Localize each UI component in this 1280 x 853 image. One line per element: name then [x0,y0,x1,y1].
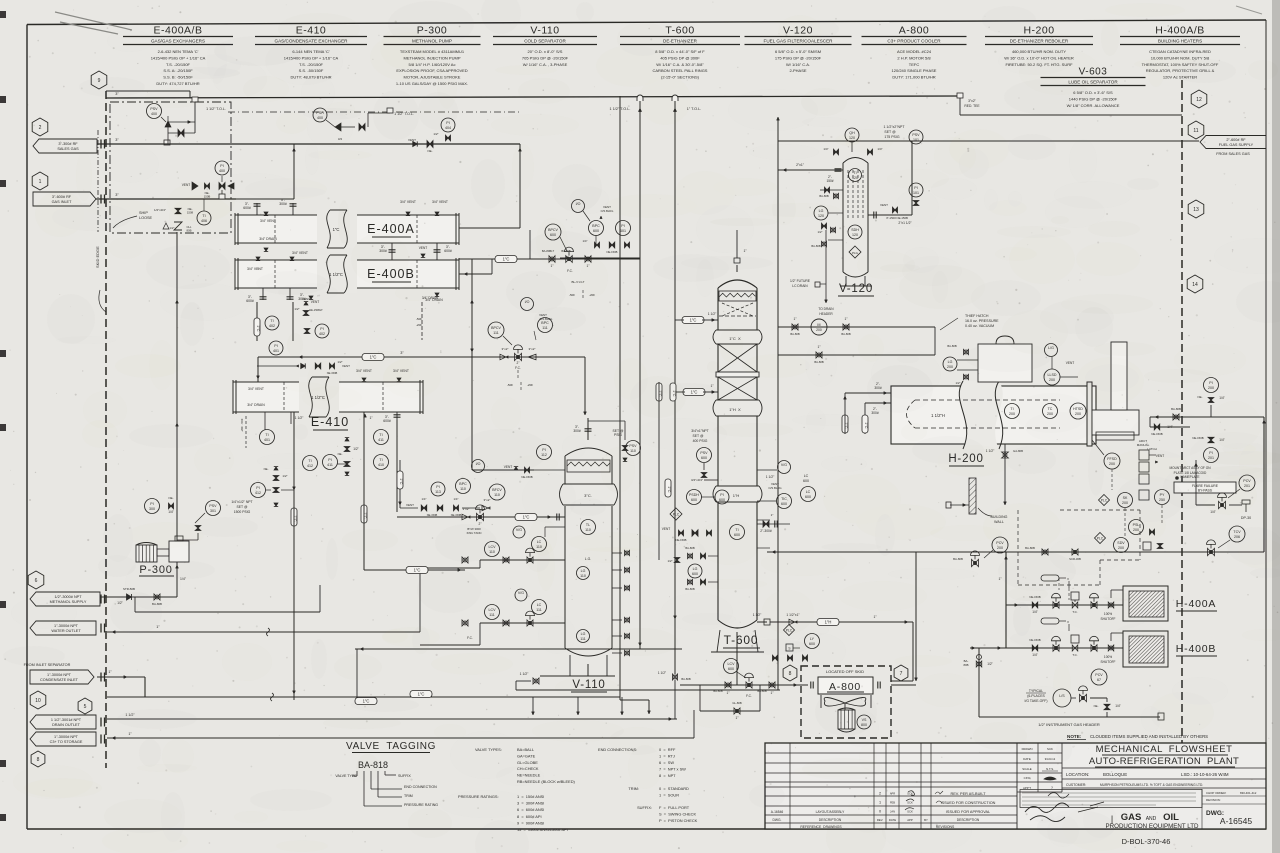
svg-text:1/4": 1/4" [1115,704,1121,708]
svg-text:2": 2" [517,361,520,365]
svg-text:BOLLOQUE: BOLLOQUE [1103,772,1127,777]
svg-text:VENT: VENT [1066,361,1075,365]
svg-text:400: 400 [219,169,225,173]
svg-text:2"-600# RF: 2"-600# RF [1226,138,1246,142]
svg-text:1 1/2"x2"NPT: 1 1/2"x2"NPT [884,125,906,129]
svg-text:110: 110 [494,493,500,497]
drop arrows to drain header [532,697,534,715]
svg-text:1": 1" [771,691,774,695]
svg-text:PSV: PSV [150,107,158,111]
svg-text:1"H: 1"H [825,620,832,625]
svg-text:NE-: NE- [338,452,343,456]
flag water outlet [30,621,96,635]
svg-text:1 1/2": 1 1/2" [295,416,305,420]
svg-text:11: 11 [1193,128,1198,134]
valve station sales gas [168,121,195,123]
svg-text:600: 600 [719,498,725,502]
svg-text:3"x2": 3"x2" [529,347,536,351]
svg-text:LCV: LCV [728,662,736,666]
column T-600 dashed section [722,303,753,316]
svg-text:SCK: SCK [1047,747,1053,751]
svg-text:8: 8 [37,757,40,763]
V-110 outlet trains [480,559,565,561]
cooler A-800 fan [824,697,845,706]
svg-text:NE-150B: NE-150B [427,513,438,517]
riser 1-1/2 TOL [639,100,641,649]
svg-text:BA-80B: BA-80B [819,194,828,198]
ship loose dashed boundary [110,102,231,233]
svg-text:BA-80B: BA-80B [811,244,820,248]
svg-text:PSV: PSV [629,444,637,448]
pipe H-200 feed nozzles [845,392,891,394]
pipe riser E400B to E410 [256,302,258,341]
svg-text:111: 111 [493,331,498,335]
methanol loop return [134,597,136,612]
svg-text:3/4" DRAIN: 3/4" DRAIN [247,403,265,407]
node hexagon 2 [32,118,48,136]
PI-101 gauge [909,183,923,197]
svg-text:BA-80B: BA-80B [681,677,690,681]
pipe condensate inlet riser [106,257,108,259]
svg-text:LOCATED OFF SKID: LOCATED OFF SKID [826,669,864,674]
svg-text:-50F: -50F [569,293,575,297]
svg-text:APR: APR [890,792,895,796]
svg-text:NE-150B: NE-150B [451,513,462,517]
svg-text:10: 10 [35,698,41,704]
svg-text:BPC: BPC [459,482,467,486]
svg-text:PRESSURE RATING: PRESSURE RATING [404,803,438,807]
pipe H-400A train [1006,604,1123,606]
svg-text:3/4" VENT: 3/4" VENT [292,251,308,255]
column T-600 upper collar [714,330,761,344]
pipe V-120 gas out going up [911,141,913,215]
flag condensate inlet [30,670,94,684]
svg-text:NE-: NE- [264,467,269,471]
svg-text:300#: 300# [871,411,879,415]
PSV-301 methanol [206,501,221,516]
svg-text:300: 300 [149,507,155,511]
svg-text:111: 111 [580,637,585,641]
gas inlet instruments [215,161,229,175]
svg-text:END CONNECTION: END CONNECTION [404,785,437,789]
svg-text:DE-ETHANIZER REBOILER: DE-ETHANIZER REBOILER [1010,39,1069,44]
riser V-120 feed [777,117,779,690]
column T-600 flange band [716,372,759,377]
pipe break marks [267,628,270,636]
svg-text:CK'D: CK'D [1024,776,1031,780]
flag sales gas outlet [33,139,97,153]
title block location row [1062,767,1266,769]
title block reference drawings table [765,752,1017,754]
svg-text:PI: PI [256,486,259,490]
scan edge artifacts [1272,0,1280,853]
separator V-110 legs [569,655,571,676]
svg-text:NOTE:: NOTE: [1067,734,1082,739]
svg-text:1/4": 1/4" [422,497,427,501]
svg-text:SCALE: SCALE [1022,767,1032,771]
svg-text:LAYOUT/ASSEBLY: LAYOUT/ASSEBLY [816,810,845,814]
svg-text:175 PSIG DP @ -20/150F: 175 PSIG DP @ -20/150F [775,55,822,60]
column T-600 mid collar 2 [714,486,761,502]
svg-text:1 1/2": 1 1/2" [753,613,762,617]
svg-text:2 H.P. MOTOR 5/8: 2 H.P. MOTOR 5/8 [897,55,931,60]
svg-text:LC DRAIN: LC DRAIN [792,284,808,288]
PLC diamond T-600 [670,508,682,520]
PSV-110 and vent [626,441,641,456]
svg-text:NE-: NE- [1198,395,1203,399]
svg-text:1"H X: 1"H X [729,407,741,412]
svg-text:3/4" DRAIN: 3/4" DRAIN [259,237,277,241]
T-600 right level instruments [805,477,807,479]
reboiler H-200 stack [1111,342,1127,410]
svg-text:2-PHASE: 2-PHASE [789,68,806,73]
svg-text:DUTY: 474,727 BTU/HR: DUTY: 474,727 BTU/HR [156,81,199,86]
svg-text:LG: LG [693,567,698,571]
column T-600 skirt [717,630,720,652]
svg-text:3"C.: 3"C. [584,493,592,498]
svg-text:T.C.: T.C. [1072,653,1078,657]
svg-text:1/2": 1/2" [817,230,822,234]
pipe gas inlet line [96,198,236,200]
reboiler H-200 tubesheet flange [1087,382,1092,446]
pipe top overhead line [106,96,960,98]
svg-text:PLC: PLC [1101,498,1108,502]
svg-text:E-400A/B: E-400A/B [154,25,203,37]
svg-text:1 = RTJ: 1 = RTJ [659,754,675,759]
pipe T-600 bottoms [736,632,738,685]
PSV-400 instrument [147,104,162,119]
pipe drain header run [107,718,677,720]
svg-text:1 1/2": 1 1/2" [658,671,666,675]
svg-text:CONDENSATE INLET: CONDENSATE INLET [40,678,79,682]
reboiler H-200 burner box [1092,410,1139,435]
svg-text:9 = 900# ANSI: 9 = 900# ANSI [517,820,544,825]
pipe sales gas line [164,140,170,145]
node hexagon 7 at A-800 [894,665,908,681]
svg-text:F.C.: F.C. [467,636,473,640]
svg-text:1"C: 1"C [256,325,260,331]
svg-text:1"-3000# NPT: 1"-3000# NPT [54,735,79,739]
svg-text:1"H: 1"H [733,493,740,498]
pipe into A-800 [780,684,808,686]
svg-text:110: 110 [580,574,586,578]
exchanger E-400B baffles [274,260,276,288]
fuel gas branch right column [1204,378,1219,393]
svg-text:3/4" VENT: 3/4" VENT [248,387,264,391]
svg-text:200: 200 [1208,386,1214,390]
svg-text:A-16546: A-16546 [771,810,784,814]
svg-text:200: 200 [947,365,953,369]
svg-text:600: 600 [701,456,707,460]
pipe T-600 overhead out [736,265,738,272]
svg-text:PSV: PSV [700,451,708,455]
svg-text:A-800: A-800 [899,25,930,37]
svg-text:BA-80B: BA-80B [841,332,850,336]
exchanger E-410 baffles [283,382,285,412]
svg-text:GAS/GAS EXCHANGERS: GAS/GAS EXCHANGERS [151,39,205,44]
title block outer [765,743,1266,829]
exchanger E-400B nozzles [256,257,260,260]
svg-text:LC: LC [806,490,811,494]
svg-text:1"C: 1"C [864,422,868,428]
svg-text:402: 402 [269,324,275,328]
pipe sales from E400A [519,148,522,151]
svg-text:COLD SEPARATOR: COLD SEPARATOR [524,39,566,44]
svg-text:BPC: BPC [592,224,600,228]
cooler A-800 skid dashed box [801,666,891,738]
svg-text:401: 401 [273,349,279,353]
LCV-600 bottoms control [724,659,739,674]
pipe crossover drop [471,259,473,357]
svg-text:6: 6 [35,578,38,584]
pipe E-400B right inlet [459,273,492,275]
svg-text:PLC: PLC [673,512,680,516]
svg-text:V-120: V-120 [839,283,873,295]
svg-text:SDV: SDV [1117,541,1125,545]
PSL-200 SDV-200 [1095,533,1106,544]
svg-text:120/240 SINGLE PHASE: 120/240 SINGLE PHASE [892,68,937,73]
svg-text:120: 120 [852,176,858,180]
svg-text:F.C.: F.C. [746,694,752,698]
cooler A-800 box [818,677,873,694]
svg-text:THIEF HATCH: THIEF HATCH [965,314,989,318]
svg-text:1": 1" [794,317,797,321]
pipe inlet to riser 294 [236,198,294,200]
svg-text:3"x2": 3"x2" [463,507,470,511]
LY-600 and PLC [805,634,820,649]
svg-text:1500 PSIG: 1500 PSIG [234,510,251,514]
svg-text:1 1/2": 1 1/2" [708,312,717,316]
svg-text:FEB: FEB [890,801,895,805]
svg-text:1": 1" [845,317,848,321]
svg-text:CLOUDED ITEMS SUPPLIED AND INS: CLOUDED ITEMS SUPPLIED AND INSTALLED BY … [1090,734,1208,739]
svg-text:MURPHSON PETROLEUMS LTD. % TOF: MURPHSON PETROLEUMS LTD. % TOFT & GAS EN… [1100,783,1203,787]
svg-text:1/2"x3/4": 1/2"x3/4" [154,208,166,212]
svg-text:1/4": 1/4" [823,147,828,151]
svg-text:2"-300#: 2"-300# [760,529,772,533]
sheet border frame [27,20,1266,25]
heater H-400B box [1123,631,1168,667]
svg-text:1 1/2": 1 1/2" [520,672,530,676]
svg-text:110: 110 [460,487,466,491]
svg-text:LSD.: 10-10-64-26 W4M: LSD.: 10-10-64-26 W4M [1181,772,1229,777]
svg-text:T.S. -20/150F: T.S. -20/150F [166,62,191,67]
svg-text:110: 110 [585,528,591,532]
H-400A pilot capsule [1041,575,1059,581]
svg-text:TIC: TIC [781,497,787,501]
svg-text:600: 600 [593,229,599,233]
svg-text:PI: PI [621,224,624,228]
svg-text:600#: 600# [383,419,391,423]
svg-text:PI: PI [150,502,153,506]
svg-text:DATE: DATE [1023,757,1031,761]
svg-text:1": 1" [771,513,774,517]
svg-text:15 = 1500# ANSI/1500# API: 15 = 1500# ANSI/1500# API [517,827,568,832]
svg-text:V/G: V/G [518,591,524,595]
svg-text:3/4" VENT: 3/4" VENT [432,200,448,204]
riser junctions bottom [620,699,649,701]
svg-text:7 = NPT x SW: 7 = NPT x SW [659,767,686,772]
svg-text:V-110: V-110 [530,25,559,37]
svg-text:3/4" VENT: 3/4" VENT [260,219,276,223]
svg-text:V/G: V/G [781,463,787,467]
gauge row over V110 feed [399,445,401,455]
svg-text:12: 12 [1196,97,1202,103]
flag connection ticks [100,140,102,149]
pipe E410 to V110 row [396,420,398,512]
svg-text:TEFC: TEFC [909,62,920,67]
svg-text:200: 200 [1049,378,1055,382]
svg-text:3/4" VENT: 3/4" VENT [247,267,263,271]
exchanger E-400A [235,215,459,243]
pipe V-110 overhead to BPC station [472,258,640,260]
svg-text:101: 101 [913,138,919,142]
svg-text:TL: TL [586,523,590,527]
svg-text:TI: TI [853,171,856,175]
pump P-300 body [169,541,189,562]
instrument cluster E-410 row [303,456,318,471]
svg-text:110: 110 [630,449,636,453]
svg-text:1/2": 1/2" [353,447,359,451]
title block stamp scribbles [1025,803,1069,822]
svg-text:DUTY: 171,000 BTU/HR: DUTY: 171,000 BTU/HR [892,75,935,80]
svg-text:VENT: VENT [406,503,414,507]
TI-406 bubble [197,211,211,225]
pipe E-400A/B crossover [391,243,393,260]
pipe H-400B train [970,647,1123,649]
flag c3+ to storage [30,732,96,746]
svg-text:150#: 150# [826,179,833,183]
svg-text:C3+ TO STORAGE: C3+ TO STORAGE [50,740,83,744]
cooler A-800 plenum [820,695,822,708]
pump M-200 circuit [778,326,935,328]
instrument cluster sales line [441,118,455,132]
pipe long run under V-110 [107,696,620,698]
svg-text:2: 2 [39,125,42,131]
T-600 left gauges [656,383,662,401]
svg-text:401: 401 [264,438,270,442]
svg-text:PI: PI [720,493,723,497]
svg-text:1/4": 1/4" [1219,396,1225,400]
svg-text:LCV: LCV [489,608,497,612]
svg-text:M: M [817,323,820,327]
relief angle valve [167,127,169,144]
svg-text:SKID EDGE: SKID EDGE [95,246,100,268]
svg-text:600: 600 [781,502,787,506]
svg-text:3"x2": 3"x2" [968,99,976,103]
V-110 feed control valve [477,513,481,520]
PCV-200 bottom station [992,537,1008,553]
svg-text:LOOSE: LOOSE [139,216,153,220]
instrument row y330 [265,316,279,330]
svg-text:600: 600 [691,498,697,502]
svg-text:SUFFIX: SUFFIX [398,774,411,778]
reboiler H-200 expansion tank [978,344,1032,382]
svg-text:SDH: SDH [851,228,859,232]
T-600 right side gauges [778,461,791,474]
svg-text:E-410: E-410 [311,415,349,429]
svg-text:13: 13 [1193,207,1199,213]
column T-600 TI bubble [730,525,745,540]
svg-text:F = FULL PORT: F = FULL PORT [659,805,690,810]
svg-text:1 1/2": 1 1/2" [766,475,775,479]
svg-text:1/2": 1/2" [294,307,299,311]
svg-text:VENT: VENT [419,246,428,250]
svg-text:FROM SALES GAS: FROM SALES GAS [1216,152,1250,156]
PY-250 SK-200 [1155,490,1170,505]
svg-text:1"-3000# NPT: 1"-3000# NPT [47,673,72,677]
svg-text:113: 113 [435,490,441,494]
exchanger E-400B bottom nozzles [262,288,264,300]
svg-text:VENT: VENT [342,364,350,368]
svg-text:111: 111 [489,613,494,617]
svg-text:HEADER: HEADER [819,312,833,316]
wall pipe stub [950,504,969,506]
svg-text:A-16545: A-16545 [1220,816,1252,826]
svg-text:SHUTOFF: SHUTOFF [1101,660,1116,664]
svg-text:600: 600 [803,479,809,483]
svg-text:PI: PI [1209,381,1212,385]
svg-text:DP-30: DP-30 [1241,516,1251,520]
svg-text:1"C: 1"C [667,486,671,492]
svg-text:H-400A: H-400A [1176,598,1216,610]
svg-text:2": 2" [479,522,482,526]
svg-text:BUILDING HEATERS: BUILDING HEATERS [1158,39,1202,44]
svg-text:N.T.S.: N.T.S. [1046,767,1054,771]
svg-text:1/4"x1/2" NPT: 1/4"x1/2" NPT [231,500,252,504]
svg-text:16.0 oz. PRESSURE: 16.0 oz. PRESSURE [965,319,999,323]
svg-text:VENT: VENT [408,138,416,142]
V-110 drain long line [516,689,780,691]
cooler A-800 motor [838,710,855,729]
pipe water line from E410 region [264,418,266,430]
pipe instrument gas header [979,716,1160,718]
pipe 1C line y570 [364,569,465,571]
svg-text:S = SWING CHECK: S = SWING CHECK [659,812,696,817]
bottoms bypass globe [699,685,701,711]
node hexagon 14 [1187,275,1203,293]
reboiler H-200 instruments on shell [1005,404,1020,419]
svg-text:BA-80B: BA-80B [947,344,956,348]
svg-text:H-400B: H-400B [1176,643,1216,655]
svg-text:OIL: OIL [1163,812,1179,823]
pipe condensate to E-410 [107,257,236,259]
svg-text:-20F -50F: -20F -50F [240,418,244,432]
svg-text:1 1/2"H: 1 1/2"H [931,413,945,418]
svg-text:PSV: PSV [912,133,920,137]
riser 1 TOL [674,100,676,674]
svg-text:601: 601 [620,229,626,233]
title block drawn/date table [1061,743,1063,792]
svg-text:SET @: SET @ [237,505,248,509]
PCV-67 typical takeoff [1091,669,1107,685]
node hexagon 13 [1188,200,1204,218]
svg-text:300#: 300# [573,429,581,433]
flag gas inlet [33,192,96,206]
svg-text:1 1/2"-3001# NPT: 1 1/2"-3001# NPT [51,718,82,722]
condensate inlet jog [97,676,145,678]
svg-text:BPCV: BPCV [491,326,501,330]
svg-text:SALES GAS: SALES GAS [57,147,79,151]
svg-text:410: 410 [378,463,384,467]
svg-text:1"C: 1"C [399,478,403,484]
svg-text:5: 5 [84,704,87,710]
svg-text:400: 400 [151,112,157,116]
svg-text:67: 67 [1097,678,1101,682]
T-600 left level instruments [688,564,702,578]
node hexagon 9 [91,71,107,89]
svg-text:1/4": 1/4" [168,510,174,514]
